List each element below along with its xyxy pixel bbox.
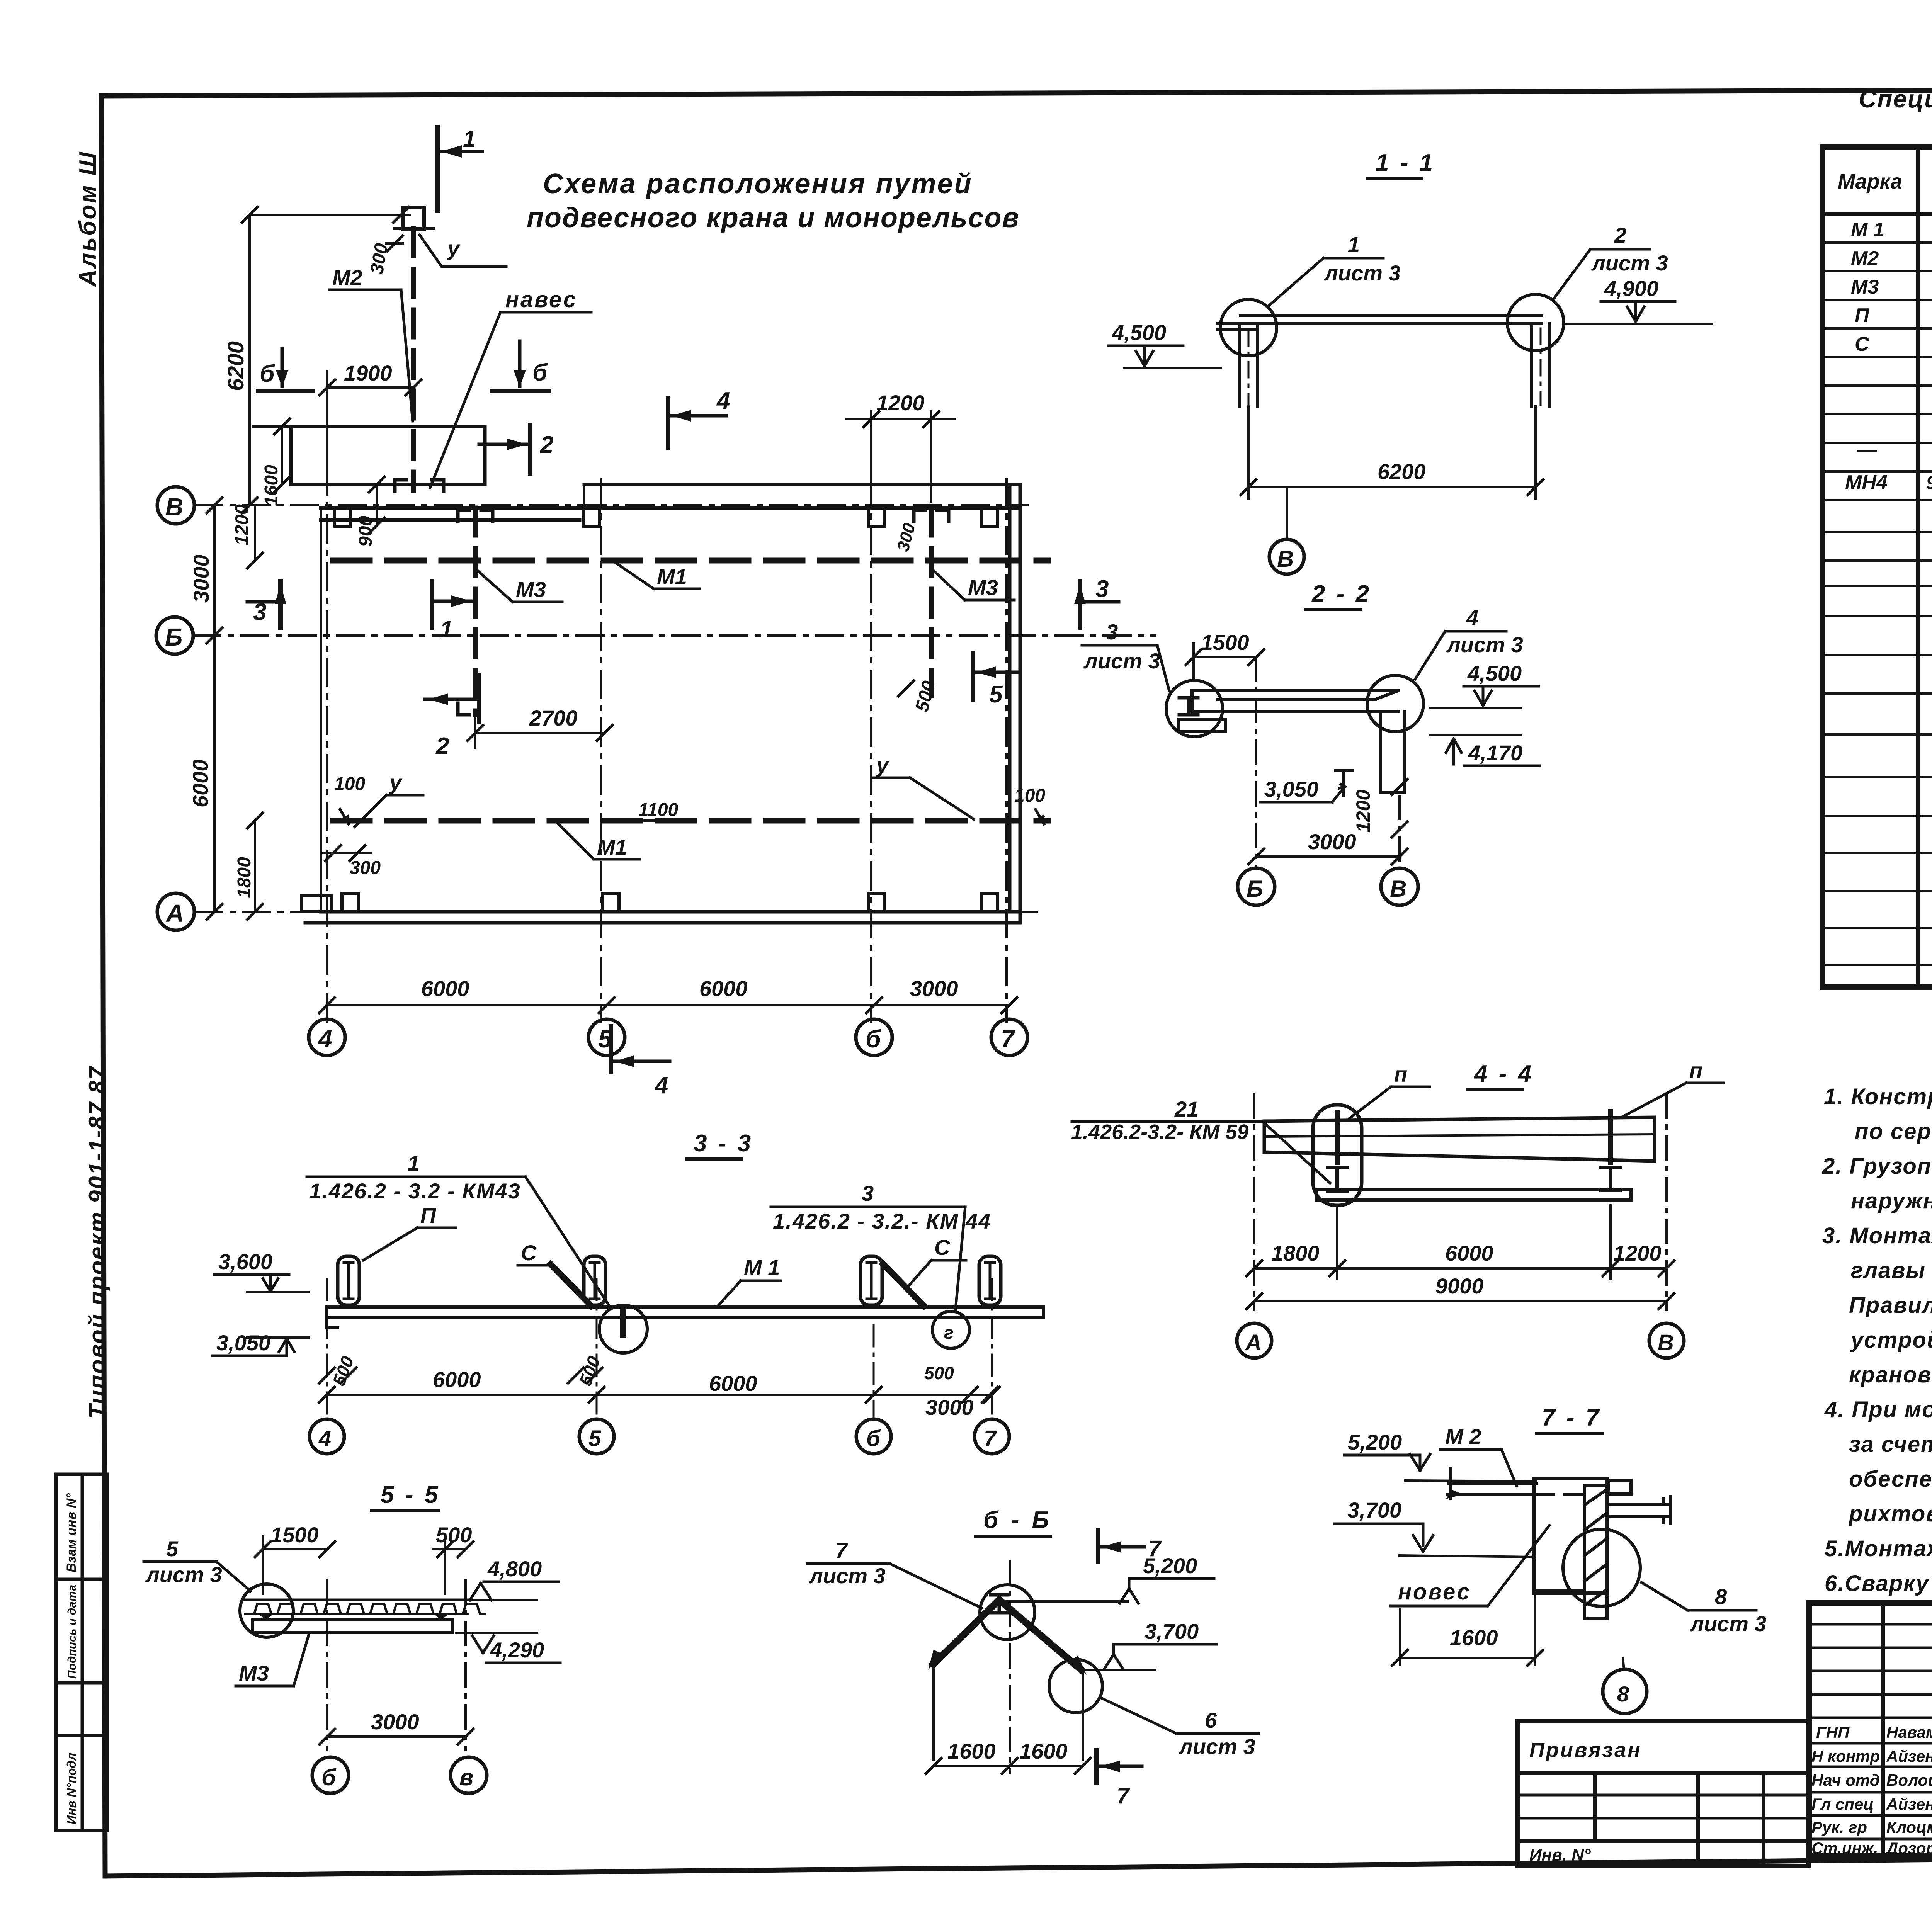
svg-text:у: у bbox=[875, 753, 889, 777]
svg-text:5,200: 5,200 bbox=[1348, 1430, 1402, 1454]
svg-text:6000: 6000 bbox=[433, 1367, 481, 1392]
annex (naves) rectangle bbox=[291, 427, 485, 484]
svg-text:2: 2 bbox=[540, 432, 553, 458]
6-6 flag 7 top bbox=[1098, 1531, 1145, 1562]
naves notch marks bbox=[395, 480, 444, 491]
2-2 right column bbox=[1380, 711, 1404, 792]
svg-text:лист 3: лист 3 bbox=[1689, 1611, 1767, 1636]
3-3 hanger P no.4 bbox=[979, 1256, 1001, 1305]
svg-text:7: 7 bbox=[1001, 1025, 1016, 1053]
svg-text:Взам инв N°: Взам инв N° bbox=[64, 1493, 79, 1572]
1-1 dim 6200 bbox=[1247, 406, 1250, 498]
3-3 node circle g bbox=[932, 1311, 969, 1348]
svg-text:1600: 1600 bbox=[947, 1739, 996, 1763]
spec table data rows bbox=[1845, 219, 1932, 687]
svg-text:П: П bbox=[420, 1203, 437, 1227]
svg-text:Альбом Ш: Альбом Ш bbox=[75, 151, 101, 287]
svg-text:1800: 1800 bbox=[234, 857, 255, 898]
2-2 node circle right bbox=[1367, 675, 1423, 732]
3-3 brace C right bbox=[883, 1264, 924, 1306]
svg-text:5: 5 bbox=[588, 1426, 601, 1451]
svg-text:6200: 6200 bbox=[223, 341, 248, 391]
svg-text:4: 4 bbox=[654, 1072, 668, 1099]
svg-text:3: 3 bbox=[1106, 620, 1118, 644]
svg-text:1.426.2 - 3.2.- КМ 44: 1.426.2 - 3.2.- КМ 44 bbox=[773, 1209, 991, 1233]
svg-text:б: б bbox=[866, 1426, 881, 1451]
svg-text:лист 3: лист 3 bbox=[1591, 251, 1668, 275]
4-4 axis circle A bbox=[1237, 1323, 1272, 1358]
svg-text:б: б bbox=[866, 1025, 882, 1053]
svg-text:В: В bbox=[165, 493, 183, 521]
svg-text:1200: 1200 bbox=[876, 391, 925, 415]
svg-text:6000: 6000 bbox=[188, 759, 213, 807]
axis line 6 bbox=[870, 479, 872, 1022]
svg-text:Инв. N°: Инв. N° bbox=[1529, 1846, 1591, 1865]
prisvyazan block bbox=[1518, 1721, 1809, 1866]
1-1 node circle right bbox=[1507, 294, 1564, 351]
svg-text:3,050: 3,050 bbox=[216, 1331, 270, 1355]
svg-text:А: А bbox=[1245, 1330, 1262, 1355]
svg-text:500: 500 bbox=[436, 1523, 472, 1547]
1-1 node circle left bbox=[1220, 299, 1277, 356]
svg-text:7: 7 bbox=[984, 1426, 997, 1451]
svg-text:7: 7 bbox=[1117, 1783, 1130, 1808]
svg-text:С: С bbox=[521, 1241, 537, 1265]
dim 1200 top right bbox=[870, 411, 872, 479]
axis circle B bbox=[156, 617, 193, 654]
svg-text:М1: М1 bbox=[657, 564, 687, 589]
svg-text:4: 4 bbox=[716, 388, 730, 414]
svg-text:Айзенберг: Айзенберг bbox=[1886, 1747, 1932, 1765]
svg-text:б: б bbox=[260, 360, 275, 387]
svg-text:М 1: М 1 bbox=[1851, 219, 1884, 241]
svg-text:А: А bbox=[165, 899, 184, 927]
left margin stamp strip bbox=[56, 1474, 107, 1831]
svg-text:4,500: 4,500 bbox=[1112, 320, 1166, 345]
svg-text:Нач отд: Нач отд bbox=[1811, 1771, 1880, 1789]
5-5 beam plate bbox=[253, 1620, 453, 1633]
svg-text:Спецификация к схеме располо: Спецификация к схеме расположения путей bbox=[1859, 85, 1932, 113]
svg-text:1: 1 bbox=[440, 616, 453, 643]
1-1 axis circle V bbox=[1286, 487, 1288, 539]
section flag b right bbox=[492, 341, 549, 391]
svg-text:5.Монтажные соединения на б: 5.Монтажные соединения на болтах и сварк… bbox=[1825, 1536, 1932, 1561]
svg-text:3000: 3000 bbox=[925, 1395, 974, 1419]
svg-text:М2: М2 bbox=[332, 265, 362, 290]
dim 1900 bbox=[327, 386, 413, 389]
svg-text:3: 3 bbox=[862, 1181, 874, 1205]
svg-text:100: 100 bbox=[1014, 785, 1045, 806]
svg-text:В: В bbox=[1390, 876, 1406, 902]
svg-text:1600: 1600 bbox=[1019, 1739, 1068, 1763]
6-6 center axis bbox=[1009, 1561, 1011, 1773]
svg-text:4,500: 4,500 bbox=[1467, 661, 1522, 685]
svg-text:4,900: 4,900 bbox=[1604, 276, 1658, 301]
svg-text:В: В bbox=[1277, 546, 1294, 572]
svg-text:3000: 3000 bbox=[910, 976, 958, 1001]
svg-text:подвесного крана и монорельсов: подвесного крана и монорельсов bbox=[527, 202, 1020, 233]
svg-text:устройства и безопасной экс: устройства и безопасной эксплуатации гру… bbox=[1850, 1327, 1932, 1353]
svg-text:навес: навес bbox=[505, 287, 577, 312]
3-3 axis circles 4 5 6 7 bbox=[310, 1419, 344, 1454]
6-6 dims 1600 1600 bbox=[934, 1765, 1083, 1767]
7-7 dim 1600 bbox=[1399, 1609, 1401, 1665]
svg-text:3,700: 3,700 bbox=[1347, 1498, 1401, 1522]
svg-text:3,600: 3,600 bbox=[218, 1249, 272, 1274]
2-2 axis circle B bbox=[1238, 868, 1275, 905]
axis line 5 bbox=[600, 479, 602, 1022]
svg-text:6000: 6000 bbox=[699, 976, 748, 1001]
svg-text:Волошин: Волошин bbox=[1886, 1771, 1932, 1789]
svg-text:4,290: 4,290 bbox=[490, 1638, 544, 1662]
section flag 1 top bbox=[438, 127, 482, 211]
svg-text:б: б bbox=[532, 359, 548, 386]
svg-text:новес: новес bbox=[1398, 1579, 1471, 1604]
svg-text:8: 8 bbox=[1715, 1584, 1727, 1609]
svg-text:2 - 2: 2 - 2 bbox=[1311, 581, 1371, 607]
spec table header text bbox=[1838, 167, 1932, 206]
section flag 2 lower bbox=[425, 675, 479, 722]
plan bottom dims 6000 6000 3000 bbox=[327, 1004, 1009, 1006]
section flag 3 right bbox=[1074, 581, 1119, 628]
axis circle 6 bbox=[856, 1019, 892, 1055]
svg-text:Привязан: Привязан bbox=[1529, 1739, 1642, 1762]
svg-text:6200: 6200 bbox=[1378, 459, 1426, 484]
svg-text:1800: 1800 bbox=[1271, 1241, 1320, 1265]
svg-text:901-1-87.87 - КЖИ-МН4: 901-1-87.87 - КЖИ-МН4 bbox=[1926, 473, 1932, 493]
svg-text:3,050: 3,050 bbox=[1264, 777, 1318, 801]
axis line V bbox=[195, 504, 1028, 506]
svg-text:лист 3: лист 3 bbox=[1446, 632, 1523, 657]
svg-text:6000: 6000 bbox=[709, 1371, 757, 1395]
svg-text:Инв N°подл: Инв N°подл bbox=[65, 1753, 78, 1824]
svg-text:у: у bbox=[446, 236, 461, 260]
svg-text:1200: 1200 bbox=[1352, 790, 1374, 833]
svg-text:М3: М3 bbox=[968, 575, 998, 600]
axis line A bbox=[195, 911, 1043, 913]
7-7 monorail M2 rail stub bbox=[1446, 1468, 1536, 1499]
svg-text:3 - 3: 3 - 3 bbox=[694, 1130, 753, 1157]
4-4 hanger P no.1 oval bbox=[1313, 1105, 1362, 1205]
svg-text:500: 500 bbox=[924, 1363, 954, 1383]
svg-text:7 - 7: 7 - 7 bbox=[1542, 1404, 1601, 1431]
3-3 node circle big bbox=[599, 1305, 647, 1353]
svg-text:лист 3: лист 3 bbox=[1083, 649, 1160, 673]
svg-text:1.426.2-3.2- КМ 59: 1.426.2-3.2- КМ 59 bbox=[1071, 1120, 1248, 1144]
svg-text:М1: М1 bbox=[597, 835, 627, 859]
svg-text:3,700: 3,700 bbox=[1145, 1619, 1199, 1644]
svg-text:П: П bbox=[1855, 304, 1870, 327]
4-4 dim line 1800 6000 1200 bbox=[1254, 1267, 1667, 1270]
svg-text:4: 4 bbox=[1466, 605, 1478, 630]
section flag 4 bottom bbox=[611, 1027, 670, 1072]
monorail M3 no.2 dashed bbox=[929, 508, 934, 695]
axis line 7 bbox=[1005, 479, 1008, 1022]
building walls bbox=[305, 484, 1020, 923]
axis circle 4 bbox=[309, 1019, 345, 1055]
svg-text:3: 3 bbox=[1095, 576, 1109, 602]
svg-text:кранов“( правила Госгортехнад: кранов“( правила Госгортехнадзора) bbox=[1849, 1362, 1932, 1387]
5-5 axis dash-dot bbox=[326, 1580, 328, 1750]
svg-text:б - Б: б - Б bbox=[983, 1507, 1052, 1533]
svg-text:1.426.2 - 3.2 - КМ43: 1.426.2 - 3.2 - КМ43 bbox=[309, 1179, 521, 1203]
svg-text:Айзенберг: Айзенберг bbox=[1886, 1795, 1932, 1813]
dim 300 at M2 top bbox=[393, 207, 409, 223]
3-3 hanger P no.3 bbox=[861, 1256, 882, 1305]
svg-text:900: 900 bbox=[355, 516, 376, 547]
2-2 dim 1500 bbox=[1194, 656, 1256, 658]
svg-text:лист 3: лист 3 bbox=[1178, 1734, 1255, 1759]
svg-text:Рук. гр: Рук. гр bbox=[1811, 1818, 1867, 1836]
svg-text:С: С bbox=[934, 1235, 951, 1259]
svg-text:Клоцман: Клоцман bbox=[1886, 1818, 1932, 1836]
svg-text:5 - 5: 5 - 5 bbox=[381, 1482, 440, 1508]
svg-text:обеспечить овальными отверст: обеспечить овальными отверстиями После о… bbox=[1849, 1467, 1932, 1492]
dim 1600 annex bbox=[281, 427, 283, 484]
3-3 hanger P no.1 bbox=[338, 1256, 359, 1305]
svg-text:4: 4 bbox=[318, 1426, 331, 1451]
4-4 crane girder bbox=[1264, 1117, 1655, 1161]
4-4 hanger P no.2 bbox=[1608, 1112, 1613, 1163]
5-5 dim 500 bbox=[433, 1548, 466, 1550]
svg-text:Подпись и дата: Подпись и дата bbox=[66, 1585, 78, 1679]
svg-text:1900: 1900 bbox=[344, 361, 392, 385]
svg-text:М2: М2 bbox=[1851, 247, 1879, 270]
4-4 axis dash-dot bbox=[1253, 1095, 1255, 1310]
section flag b left bbox=[258, 348, 313, 391]
5-5 dim 1500 bbox=[263, 1548, 327, 1550]
svg-text:Гл спец: Гл спец bbox=[1811, 1795, 1874, 1813]
svg-text:2: 2 bbox=[435, 733, 449, 760]
2-2 axis dash-dot lines bbox=[1255, 657, 1257, 868]
4-4 dim 9000 bbox=[1254, 1300, 1667, 1302]
svg-text:Б: Б bbox=[165, 623, 182, 651]
svg-text:1: 1 bbox=[463, 126, 476, 152]
svg-text:Ст.инж.: Ст.инж. bbox=[1811, 1839, 1878, 1857]
3-3 brace C left bbox=[551, 1264, 591, 1306]
dim 2700 bbox=[475, 732, 605, 734]
1-1 right column bbox=[1531, 324, 1550, 406]
svg-text:1600: 1600 bbox=[1450, 1625, 1498, 1650]
svg-text:1600: 1600 bbox=[261, 465, 282, 506]
svg-text:3000: 3000 bbox=[1308, 829, 1356, 854]
3-3 axis extensions bbox=[326, 1279, 328, 1417]
svg-text:Марка: Марка bbox=[1838, 170, 1902, 193]
svg-text:9000: 9000 bbox=[1435, 1274, 1484, 1298]
2-2 node circle left bbox=[1166, 680, 1223, 737]
svg-text:6: 6 bbox=[1205, 1708, 1217, 1732]
6-6 flag 7 bottom bbox=[1097, 1750, 1142, 1783]
monorail M2 dashed vertical bbox=[411, 229, 416, 491]
svg-text:1500: 1500 bbox=[1201, 630, 1249, 654]
dim 300 left lower bbox=[325, 845, 341, 861]
crane path M1 lower dashed bbox=[333, 818, 1048, 824]
svg-text:7: 7 bbox=[835, 1538, 849, 1562]
svg-text:М 2: М 2 bbox=[1445, 1424, 1481, 1449]
svg-text:ГНП: ГНП bbox=[1816, 1723, 1850, 1741]
axis line 4 bbox=[326, 372, 328, 1022]
axis circle 5 bbox=[588, 1019, 625, 1055]
svg-text:2: 2 bbox=[1614, 223, 1626, 247]
svg-text:В: В bbox=[1658, 1330, 1674, 1355]
6-6 node circle top bbox=[980, 1585, 1035, 1640]
svg-text:5: 5 bbox=[166, 1536, 179, 1561]
5-5 node circle bbox=[240, 1584, 293, 1637]
3-3 dim line 6000 6000 3000 bbox=[327, 1394, 992, 1396]
svg-text:3000: 3000 bbox=[189, 554, 213, 603]
svg-text:21: 21 bbox=[1174, 1097, 1199, 1121]
svg-text:8: 8 bbox=[1617, 1682, 1629, 1706]
spec table frame bbox=[1822, 147, 1932, 987]
4-4 axis circle V bbox=[1649, 1323, 1684, 1358]
svg-text:лист 3: лист 3 bbox=[808, 1564, 886, 1588]
svg-text:за счет рихтовочного зазора: за счет рихтовочного зазора ; горизонтал… bbox=[1849, 1432, 1932, 1457]
svg-text:1 - 1: 1 - 1 bbox=[1376, 150, 1435, 176]
3-3 rail beam M1 bbox=[327, 1307, 1043, 1328]
axis line B (Б) bbox=[193, 634, 1155, 637]
6-6 side verticals bbox=[932, 1664, 935, 1760]
svg-text:6000: 6000 bbox=[421, 976, 469, 1001]
svg-text:рихтовки шайбы привариваются: рихтовки шайбы привариваются и ставятся … bbox=[1848, 1501, 1932, 1526]
svg-text:4,170: 4,170 bbox=[1468, 741, 1522, 765]
svg-text:М 1: М 1 bbox=[744, 1255, 780, 1280]
svg-text:Типовой проект 901-1-87.87: Типовой проект 901-1-87.87 bbox=[84, 1066, 110, 1419]
dim 900 bbox=[376, 484, 378, 525]
7-7 axis circle 8 bbox=[1623, 1658, 1624, 1670]
5-5 dim 3000 bbox=[327, 1735, 466, 1738]
6-6 node circle right bbox=[1049, 1659, 1102, 1713]
svg-text:4,800: 4,800 bbox=[487, 1557, 542, 1581]
7-7 node circle bbox=[1563, 1529, 1640, 1606]
svg-text:наружного монорельса м2 - 3,: наружного монорельса м2 - 3,2 тс; моноре… bbox=[1851, 1188, 1932, 1214]
axis circle A bbox=[157, 893, 194, 930]
7-7 embedded plate hatched bbox=[1585, 1486, 1607, 1619]
svg-text:б: б bbox=[321, 1764, 337, 1790]
svg-text:1: 1 bbox=[408, 1151, 420, 1175]
svg-text:1200: 1200 bbox=[232, 504, 252, 546]
svg-text:Дозорова: Дозорова bbox=[1885, 1839, 1932, 1857]
svg-text:1100: 1100 bbox=[638, 800, 679, 820]
svg-text:Схема расположения путей: Схема расположения путей bbox=[543, 168, 973, 199]
svg-text:100: 100 bbox=[334, 774, 365, 794]
svg-text:5,200: 5,200 bbox=[1143, 1553, 1197, 1578]
svg-text:Правила производства и прие: Правила производства и приемки работ“ и … bbox=[1849, 1293, 1932, 1318]
svg-text:у: у bbox=[388, 770, 403, 795]
section flag 1 lower bbox=[432, 581, 474, 628]
column marks top row bbox=[334, 508, 998, 912]
dim 6200 vertical bbox=[248, 215, 251, 505]
svg-text:3: 3 bbox=[253, 599, 266, 625]
7-7 bolt assembly bbox=[1607, 1481, 1671, 1524]
svg-text:МН4: МН4 bbox=[1845, 471, 1888, 494]
crane path M1 upper dashed bbox=[333, 558, 1048, 564]
1-1 left column bbox=[1239, 325, 1258, 406]
svg-text:1200: 1200 bbox=[1613, 1241, 1662, 1265]
section flag 5 bbox=[973, 653, 1020, 700]
svg-text:6000: 6000 bbox=[1445, 1241, 1493, 1265]
section flag 3 left bbox=[247, 581, 286, 628]
svg-text:2700: 2700 bbox=[529, 706, 578, 730]
section flag 4 top bbox=[668, 399, 726, 447]
2-2 axis circle V bbox=[1381, 868, 1418, 905]
2-2 I-beam mark left bbox=[1179, 698, 1198, 715]
svg-text:5: 5 bbox=[989, 681, 1003, 708]
5-5 corrugated deck bbox=[245, 1599, 468, 1601]
svg-text:1: 1 bbox=[1348, 232, 1360, 257]
svg-text:2. Грузоподъемность подвесно: 2. Грузоподъемность подвесного крана - 3… bbox=[1822, 1154, 1932, 1179]
svg-text:М3: М3 bbox=[239, 1661, 269, 1685]
2-2 beam bbox=[1179, 691, 1398, 731]
spec table row lines bbox=[1822, 243, 1932, 965]
monorail M3 no.1 dashed bbox=[473, 508, 478, 715]
svg-text:п: п bbox=[1689, 1058, 1702, 1083]
vertical dim chain left: 3000 / 6000 / 1800 / 1200 bbox=[213, 505, 216, 912]
svg-text:Н контр: Н контр bbox=[1811, 1747, 1880, 1765]
svg-text:С: С bbox=[1855, 333, 1870, 355]
svg-text:4 - 4: 4 - 4 bbox=[1473, 1061, 1534, 1087]
2-2 dim 3000 bbox=[1256, 855, 1400, 858]
svg-text:4: 4 bbox=[318, 1025, 332, 1053]
2-2 dim 1200 vertical bbox=[1392, 779, 1407, 795]
svg-text:3000: 3000 bbox=[371, 1710, 419, 1734]
M2 anchor square bbox=[403, 207, 424, 229]
svg-text:4. При монтаже вертикальную: 4. При монтаже вертикальную рихтовку пут… bbox=[1824, 1397, 1932, 1422]
svg-text:п: п bbox=[1394, 1062, 1407, 1086]
svg-text:М3: М3 bbox=[1851, 276, 1879, 298]
svg-text:г: г bbox=[944, 1322, 954, 1343]
svg-text:1500: 1500 bbox=[270, 1523, 319, 1547]
5-5 axis circle B bbox=[312, 1757, 349, 1793]
6-6 bent monorail thick bbox=[934, 1600, 999, 1664]
title block signature column bbox=[1811, 1723, 1932, 1857]
3-3 hanger P no.2 bbox=[584, 1256, 605, 1305]
svg-text:главы СН и П Ш̅-18-75 „ метал: главы СН и П Ш̅-18-75 „ металлические ко… bbox=[1851, 1258, 1932, 1283]
svg-text:Б: Б bbox=[1247, 876, 1263, 902]
left pier bbox=[301, 896, 332, 912]
svg-text:Наваминский: Наваминский bbox=[1886, 1723, 1932, 1741]
5-5 axis circle V bbox=[451, 1757, 487, 1793]
svg-text:—: — bbox=[1856, 439, 1877, 461]
svg-text:по серии 1.426.2 - 3.2.: по серии 1.426.2 - 3.2. bbox=[1855, 1119, 1932, 1144]
svg-text:лист 3: лист 3 bbox=[1323, 261, 1401, 285]
1-1 rail beam bbox=[1217, 315, 1541, 329]
axis circle 7 bbox=[991, 1019, 1027, 1055]
svg-text:6.Сварку производить электро: 6.Сварку производить электродами Э 42 ГО… bbox=[1825, 1571, 1932, 1596]
svg-text:М3: М3 bbox=[516, 577, 546, 602]
svg-text:в: в bbox=[459, 1764, 473, 1790]
5-5 hanger points bbox=[258, 1614, 449, 1620]
7-7 column bbox=[1534, 1479, 1607, 1593]
axis circle V bbox=[157, 487, 194, 524]
4-4 rail under girder bbox=[1317, 1190, 1631, 1200]
section flag 2 upper bbox=[479, 425, 530, 473]
svg-text:лист 3: лист 3 bbox=[145, 1562, 222, 1587]
svg-text:300: 300 bbox=[350, 858, 381, 878]
svg-text:1. Конструкцию путей подвесн: 1. Конструкцию путей подвесного крана вы… bbox=[1824, 1084, 1932, 1109]
svg-text:3. Монтаж пути производить: 3. Монтаж пути производить в соответстви… bbox=[1822, 1223, 1932, 1248]
